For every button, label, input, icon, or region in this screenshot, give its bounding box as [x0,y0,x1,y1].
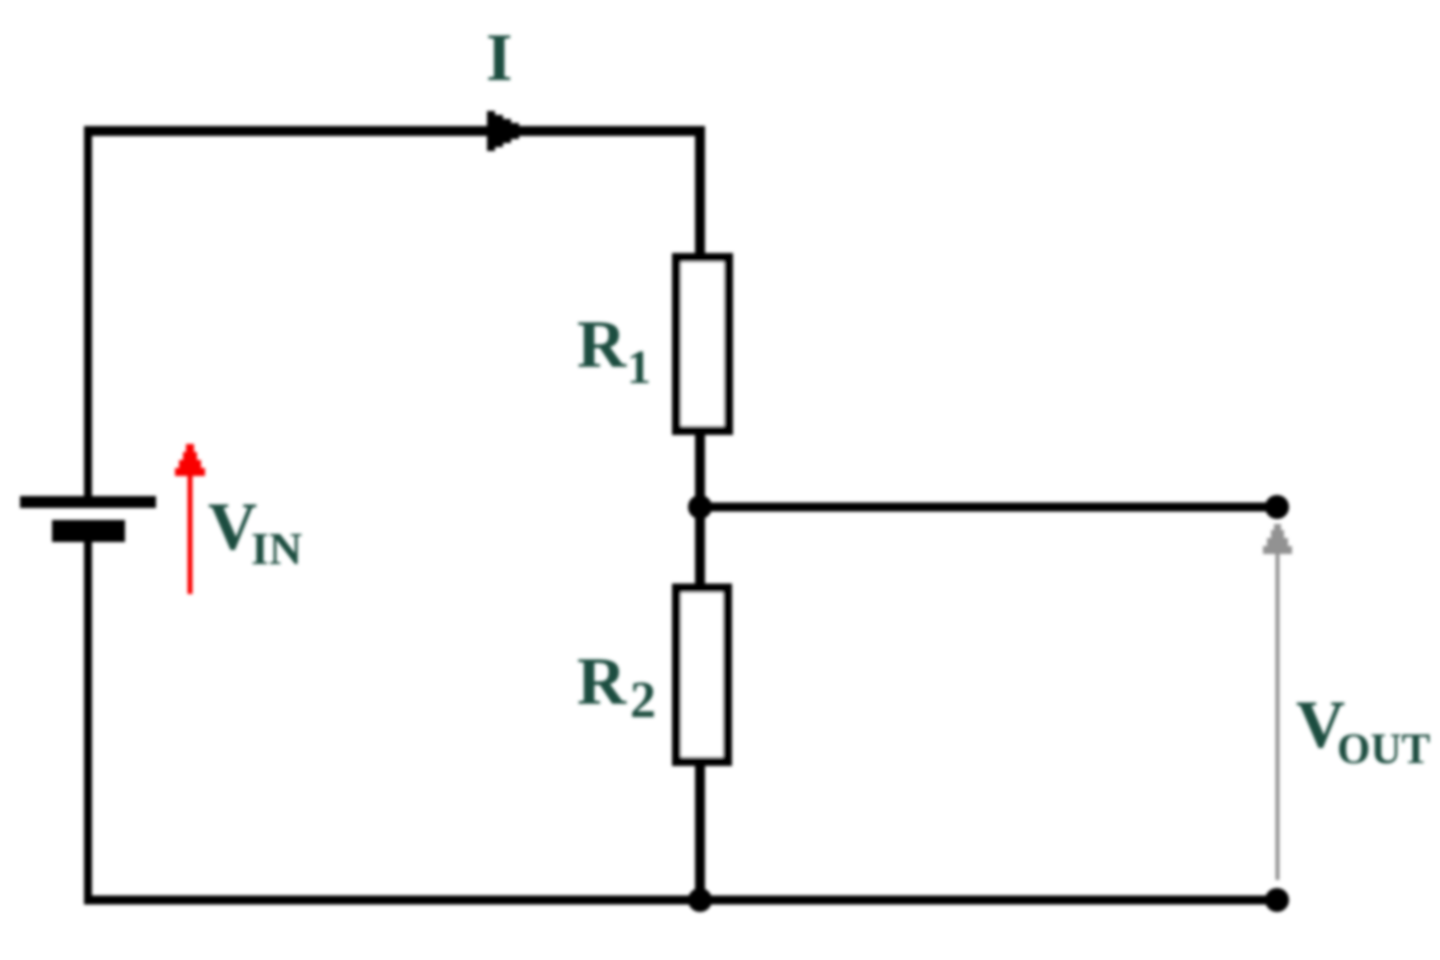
resistor R1 [677,258,729,431]
svg-text:IN: IN [251,523,302,574]
node Vout+ dot [1265,495,1289,519]
battery V positive plate [20,496,156,508]
node A junction dot [688,495,712,519]
svg-text:R: R [577,643,627,719]
wire node A to R2 [695,503,705,594]
wire top horizontal [84,126,705,136]
svg-text:2: 2 [630,672,656,729]
wire bottom horizontal [84,896,1277,905]
wire R1 to node A [695,430,705,512]
Vout arrowhead [1263,524,1292,554]
wire left vertical upper [84,127,92,502]
svg-text:1: 1 [627,341,651,394]
Vin arrow shaft [188,470,193,594]
current direction arrowhead [487,111,524,151]
Vout arrow shaft [1276,554,1280,880]
node B junction dot [688,888,712,912]
node Vout- dot [1265,888,1289,912]
wire middle horizontal [700,503,1277,512]
wire right vertical to R1 [695,127,705,257]
wire R2 to bottom [695,758,705,904]
resistor R2 [677,588,728,762]
Vin arrowhead [175,444,205,476]
wire left vertical lower [84,542,92,904]
svg-text:I: I [486,19,512,95]
battery V negative plate [52,520,125,542]
svg-text:OUT: OUT [1337,726,1431,773]
svg-text:V: V [208,488,257,564]
svg-text:R: R [577,306,627,382]
